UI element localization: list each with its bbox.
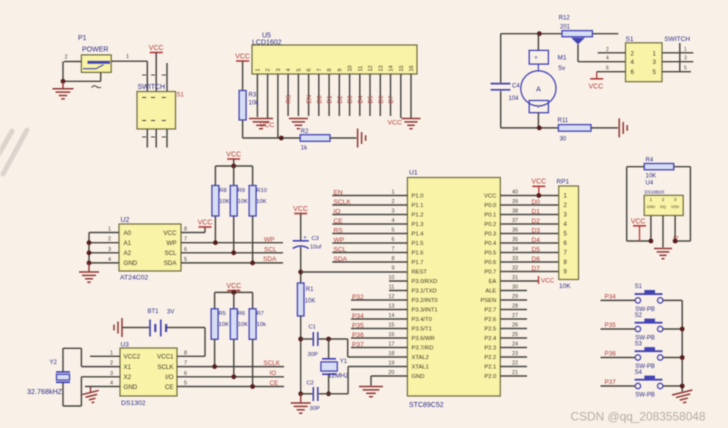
- svg-text:P1.5: P1.5: [412, 241, 424, 247]
- svg-text:D4: D4: [357, 95, 364, 103]
- svg-text:VCC: VCC: [531, 179, 546, 186]
- svg-text:P3.0/RXD: P3.0/RXD: [412, 279, 438, 285]
- svg-text:13: 13: [388, 304, 394, 310]
- wire U1 pin26 stub: [500, 323, 527, 329]
- net D0-D7 lcd pins7-14: [316, 95, 395, 103]
- ground U2: [88, 263, 90, 272]
- power VCC top-left: [149, 45, 164, 53]
- svg-text:D4: D4: [532, 237, 541, 244]
- junction button S3: [680, 355, 685, 360]
- svg-text:STC89C52: STC89C52: [409, 402, 444, 409]
- svg-text:P2.3: P2.3: [484, 346, 496, 352]
- svg-text:10K: 10K: [559, 283, 571, 290]
- wire U1 pin33 net D6: [500, 256, 558, 262]
- svg-text:5: 5: [653, 69, 657, 76]
- svg-text:GND: GND: [412, 374, 425, 380]
- svg-text:P1.7: P1.7: [412, 260, 424, 266]
- wire U1 pin8 net SDA: [332, 256, 407, 262]
- wire U1 pin22 stub: [500, 361, 527, 367]
- svg-text:RP1: RP1: [557, 179, 570, 186]
- svg-text:GND: GND: [124, 260, 138, 267]
- svg-text:8: 8: [184, 227, 187, 233]
- svg-text:3: 3: [276, 68, 282, 71]
- svg-text:D6: D6: [532, 256, 541, 263]
- svg-text:D0: D0: [316, 95, 323, 103]
- wire U3 pin4 GND: [85, 381, 120, 393]
- junction VCC-RP1: [536, 193, 541, 198]
- wire R4 left loop: [627, 167, 645, 241]
- wire crystal top: [328, 339, 330, 358]
- svg-text:12: 12: [368, 65, 374, 71]
- svg-text:VCC: VCC: [163, 230, 177, 237]
- svg-text:D3: D3: [347, 95, 354, 103]
- net VCC on EA: [539, 276, 555, 285]
- wire U1 pin17: [351, 342, 407, 348]
- wire U4 bottom left: [627, 240, 651, 242]
- power VCC pin40: [531, 179, 546, 196]
- ground reset rail: [291, 403, 311, 413]
- svg-text:14: 14: [389, 65, 395, 71]
- svg-text:P0.7: P0.7: [484, 270, 496, 276]
- svg-text:U2: U2: [121, 217, 130, 224]
- wire buttons common vertical: [681, 300, 683, 391]
- svg-text:P36: P36: [605, 351, 617, 358]
- svg-text:P1.0: P1.0: [412, 194, 424, 200]
- svg-text:38: 38: [512, 209, 518, 215]
- junction button S2: [680, 327, 685, 332]
- svg-text:RS: RS: [334, 227, 344, 234]
- wire U1 pin37 net D2: [500, 218, 558, 224]
- wire R8 top: [214, 166, 216, 186]
- wire U1 pin24 stub: [500, 342, 527, 348]
- wire U1 pin1 net EN: [332, 190, 407, 196]
- svg-text:WP: WP: [334, 237, 345, 244]
- wire P1 bottom return: [63, 72, 101, 81]
- wire U1 pin3 net IO: [332, 209, 407, 215]
- svg-text:4: 4: [606, 56, 609, 62]
- svg-text:10: 10: [388, 275, 394, 281]
- capacitor C2 30P: [307, 381, 320, 413]
- svg-text:P3.5/T1: P3.5/T1: [412, 327, 432, 333]
- svg-text:P3.3/INT1: P3.3/INT1: [412, 308, 438, 314]
- wire C1 right to XTAL2: [319, 339, 408, 357]
- resistor R5 10K: [211, 309, 229, 340]
- svg-text:SCLK: SCLK: [334, 199, 352, 206]
- wire R6 top: [233, 292, 235, 308]
- wire gnd to battery: [122, 327, 149, 329]
- wire arrow to S1 pin4: [578, 45, 626, 62]
- svg-text:I/O: I/O: [165, 374, 173, 381]
- svg-text:40: 40: [512, 190, 518, 196]
- junction crystal top: [326, 337, 331, 342]
- svg-text:10K: 10K: [256, 199, 266, 205]
- svg-text:R7: R7: [257, 311, 264, 317]
- power VCC U2 pin8: [198, 219, 213, 227]
- svg-text:X1: X1: [124, 364, 132, 371]
- svg-text:D5: D5: [368, 95, 375, 103]
- resistor R3 10k: [239, 91, 259, 121]
- connector P1 POWER: [78, 35, 111, 88]
- wire U1 pin16: [351, 332, 407, 338]
- wire U1 pin32 net D7: [500, 266, 558, 272]
- svg-text:P1.4: P1.4: [412, 232, 425, 238]
- junction lcd pin3 node: [279, 136, 284, 141]
- svg-text:VCC: VCC: [226, 151, 241, 158]
- ic U4 DS18B20: [644, 190, 683, 216]
- junction R8-WP: [213, 240, 218, 245]
- resistor R2 1k: [300, 129, 330, 152]
- svg-text:VCC: VCC: [541, 278, 555, 285]
- wire S1 right vertical: [679, 43, 681, 72]
- wire R5 to SCLK: [214, 339, 216, 366]
- power VCC pullups top: [226, 151, 241, 159]
- svg-text:6: 6: [391, 237, 394, 243]
- wire U1 pin31 EA: [500, 275, 538, 281]
- wire U4 bottom right: [675, 240, 690, 242]
- svg-text:SWITCH: SWITCH: [664, 36, 690, 43]
- svg-text:R3: R3: [249, 93, 257, 99]
- svg-text:7: 7: [391, 247, 394, 253]
- svg-text:U1: U1: [409, 170, 418, 177]
- wire net SCL: [181, 247, 283, 253]
- wire U1 pin15: [351, 323, 407, 329]
- svg-text:3V: 3V: [167, 310, 174, 316]
- svg-text:18: 18: [388, 351, 394, 357]
- wire P36 to S3: [601, 357, 636, 359]
- svg-text:P1.2: P1.2: [412, 213, 424, 219]
- wire U1 pin20 GND: [371, 370, 407, 385]
- wire U2 left bus: [89, 227, 119, 263]
- svg-text:32.768kHZ: 32.768kHZ: [27, 387, 63, 396]
- svg-text:104: 104: [509, 96, 520, 102]
- svg-text:1: 1: [108, 227, 111, 233]
- wire U2 pin8 VCC: [181, 227, 205, 233]
- svg-text:P2.4: P2.4: [484, 336, 497, 342]
- wire U1 pin40 VCC to RP1: [500, 190, 558, 196]
- switch S1 SWITCH (left): [137, 84, 185, 129]
- wire U1 pin28 stub: [500, 304, 527, 310]
- mcu U1 STC89C52: [407, 170, 500, 410]
- svg-text:C4: C4: [512, 84, 520, 90]
- svg-text:P3.4/T0: P3.4/T0: [412, 317, 432, 323]
- svg-text:24: 24: [512, 342, 518, 348]
- wire U1 pin7 net SCL: [332, 247, 407, 253]
- svg-text:XTAL1: XTAL1: [412, 365, 429, 371]
- svg-text:P37: P37: [352, 341, 364, 348]
- svg-text:21: 21: [512, 370, 518, 376]
- wire R7 top: [252, 292, 254, 308]
- svg-text:SCLK: SCLK: [264, 360, 281, 367]
- svg-text:30P: 30P: [308, 352, 318, 358]
- resistor R4 10K: [644, 158, 674, 187]
- capacitor C1 30P: [308, 325, 318, 359]
- svg-text:SDA: SDA: [263, 256, 277, 263]
- wire U1 pin36 net D3: [500, 228, 558, 234]
- svg-text:GND: GND: [124, 384, 138, 391]
- svg-text:23: 23: [512, 351, 518, 357]
- svg-text:P3.7/RD: P3.7/RD: [412, 346, 434, 352]
- svg-text:10: 10: [348, 65, 354, 71]
- ic U2 AT24C02: [119, 217, 181, 282]
- svg-text:P37: P37: [605, 379, 617, 386]
- svg-text:36: 36: [512, 228, 518, 234]
- svg-text:R1: R1: [306, 287, 314, 293]
- svg-text:2: 2: [606, 47, 609, 53]
- wire R9 to SCL: [233, 216, 235, 253]
- wire U1 pin25 stub: [500, 332, 527, 338]
- svg-text:17: 17: [388, 342, 394, 348]
- svg-text:6: 6: [606, 66, 609, 72]
- wire U1 pin11 stub: [389, 285, 408, 291]
- svg-text:4: 4: [391, 218, 394, 224]
- wire U1 pin14: [351, 313, 407, 319]
- svg-text:10uf: 10uf: [310, 245, 322, 251]
- svg-text:S1: S1: [626, 36, 634, 43]
- svg-text:CE: CE: [334, 218, 344, 225]
- wire motor top rail: [501, 33, 562, 35]
- wire R5 top: [214, 292, 216, 308]
- junction R10-SDA: [250, 261, 255, 266]
- svg-text:VCC: VCC: [388, 120, 402, 127]
- svg-text:35: 35: [512, 237, 518, 243]
- svg-text:VCC: VCC: [198, 219, 213, 226]
- svg-text:D7: D7: [532, 265, 541, 272]
- svg-text:P0.2: P0.2: [484, 222, 496, 228]
- svg-text:D3: D3: [532, 227, 541, 234]
- svg-text:30: 30: [560, 137, 567, 143]
- wire U1 pin39 net D0: [500, 199, 558, 205]
- wire net SDA: [181, 257, 283, 263]
- wire gnd rail bottom: [300, 394, 302, 403]
- svg-text:U5: U5: [262, 33, 271, 40]
- junction R5-R7 rail: [231, 290, 236, 295]
- svg-text:10K: 10K: [238, 199, 248, 205]
- svg-text:A2: A2: [124, 250, 132, 257]
- wire R6 to IO: [233, 339, 235, 377]
- crystal Y1 12MHZ: [321, 359, 349, 380]
- svg-text:VCC1: VCC1: [157, 354, 174, 361]
- wire S1 pin2: [598, 47, 626, 53]
- svg-text:SDA: SDA: [334, 256, 348, 263]
- wire R3 bottom: [242, 120, 244, 138]
- junction R9-SCL: [231, 250, 236, 255]
- svg-text:12MHZ: 12MHZ: [328, 373, 349, 380]
- wire R9 top: [233, 166, 235, 186]
- wire R3 top: [242, 61, 244, 91]
- svg-text:D5: D5: [532, 246, 541, 253]
- svg-text:5: 5: [296, 68, 302, 71]
- wire switch pins bottom: [147, 129, 167, 148]
- svg-text:XTAL2: XTAL2: [412, 355, 429, 361]
- svg-text:9: 9: [337, 68, 343, 71]
- svg-text:SCL: SCL: [334, 246, 347, 253]
- lcd pin wires: [257, 74, 411, 138]
- svg-text:1: 1: [126, 54, 129, 60]
- wire R4 right loop: [674, 167, 691, 241]
- svg-text:WP: WP: [264, 237, 274, 244]
- wire net IO: [177, 371, 284, 377]
- svg-text:P0.4: P0.4: [484, 241, 497, 247]
- capacitor C3 10uf: [293, 236, 322, 251]
- svg-text:4: 4: [108, 257, 111, 263]
- svg-text:10k: 10k: [257, 322, 266, 328]
- svg-text:P3.1/TXD: P3.1/TXD: [412, 289, 437, 295]
- wire U1 pin21 stub: [500, 370, 527, 376]
- svg-text:BT1: BT1: [148, 309, 160, 315]
- svg-text:R5: R5: [219, 311, 226, 317]
- wire crystal bottom: [328, 375, 330, 394]
- svg-text:2: 2: [65, 55, 68, 61]
- svg-text:26: 26: [512, 323, 518, 329]
- power VCC R5-R7: [226, 283, 241, 291]
- svg-text:R9: R9: [238, 188, 245, 194]
- junction pullup rail: [231, 164, 236, 169]
- wire net CE: [177, 381, 284, 387]
- wire U4 pin1: [650, 216, 652, 242]
- svg-text:P1.6: P1.6: [412, 251, 424, 257]
- svg-text:20: 20: [388, 370, 394, 376]
- svg-text:SDA: SDA: [164, 260, 178, 267]
- svg-text:15: 15: [399, 65, 405, 71]
- svg-text:3: 3: [110, 371, 113, 377]
- wire U1 pin23 stub: [500, 351, 527, 357]
- svg-text:P2.0: P2.0: [484, 374, 496, 380]
- svg-text:VCC: VCC: [589, 84, 604, 91]
- svg-text:2: 2: [110, 361, 113, 367]
- pushbutton S4 SW-PB: [635, 370, 663, 399]
- wire S1 pin5: [662, 66, 691, 72]
- svg-text:33: 33: [512, 256, 518, 262]
- junction R5-SCLK: [212, 364, 217, 369]
- svg-text:P0.1: P0.1: [484, 213, 496, 219]
- svg-text:SW-PB: SW-PB: [635, 393, 655, 399]
- svg-text:D6: D6: [378, 95, 385, 103]
- svg-text:10K: 10K: [305, 299, 316, 305]
- svg-text:10K: 10K: [238, 322, 248, 328]
- svg-text:R12: R12: [559, 16, 571, 22]
- wire contrast rail: [243, 137, 301, 139]
- wire U1 pin38 net D1: [500, 209, 558, 215]
- battery BT1 3V: [148, 309, 175, 337]
- svg-text:S3: S3: [635, 341, 643, 347]
- svg-text:22: 22: [512, 361, 518, 367]
- lcd U5 LCD1602: [252, 33, 417, 75]
- svg-text:EN: EN: [306, 95, 313, 104]
- svg-text:4: 4: [286, 68, 292, 71]
- ground left of BT1: [114, 318, 122, 337]
- svg-text:5: 5: [184, 257, 187, 263]
- ground lcd pin5: [289, 119, 308, 129]
- resistor R1 10K: [297, 283, 315, 316]
- wire U1 pin35 net D4: [500, 237, 558, 243]
- svg-text:S1: S1: [177, 93, 185, 99]
- svg-text:D1: D1: [327, 95, 334, 103]
- svg-text:P1.3: P1.3: [412, 222, 424, 228]
- pushbutton S2 SW-PB: [635, 313, 663, 342]
- power VCC reset: [293, 206, 308, 214]
- power VCC S1 (inverted): [589, 72, 604, 91]
- svg-text:30: 30: [512, 285, 518, 291]
- svg-text:DQ: DQ: [660, 204, 666, 209]
- wire U1 pin4 net CE: [332, 218, 407, 224]
- wire C3 to REST node: [300, 247, 302, 283]
- wire R2 to ground: [330, 137, 356, 139]
- svg-text:VCC: VCC: [235, 53, 250, 60]
- svg-text:1: 1: [684, 47, 687, 53]
- svg-text:39: 39: [512, 199, 518, 205]
- decor: [0, 130, 27, 174]
- svg-text:CE: CE: [165, 384, 174, 391]
- svg-text:10K: 10K: [646, 174, 657, 180]
- wire U1 pin12: [351, 294, 407, 300]
- svg-text:+: +: [303, 236, 307, 242]
- resistor R9 10K: [230, 186, 248, 217]
- svg-text:16: 16: [388, 332, 394, 338]
- svg-text:C2: C2: [307, 381, 314, 387]
- svg-text:7: 7: [317, 68, 323, 71]
- svg-text:25: 25: [512, 332, 518, 338]
- pushbutton S3 SW-PB: [635, 341, 663, 370]
- junction REST: [298, 270, 303, 275]
- svg-text:P3.6/WR: P3.6/WR: [412, 336, 435, 342]
- svg-text:R11: R11: [558, 118, 569, 124]
- svg-text:27: 27: [512, 313, 518, 319]
- wire P1 pin1 to switch: [111, 54, 147, 61]
- wire S4 to common: [663, 385, 682, 387]
- svg-text:1k: 1k: [301, 146, 308, 152]
- svg-text:P34: P34: [352, 313, 364, 320]
- wire R12 right: [592, 33, 618, 35]
- wire U1 pin2 net SCLK: [332, 199, 407, 205]
- svg-text:VCC: VCC: [226, 283, 241, 290]
- svg-text:VDD: VDD: [671, 204, 679, 209]
- ground buttons: [672, 390, 695, 405]
- svg-text:DS1302: DS1302: [121, 400, 146, 407]
- svg-text:P3.2/INT0: P3.2/INT0: [412, 298, 438, 304]
- svg-text:P2.6: P2.6: [484, 317, 496, 323]
- svg-text:R10: R10: [256, 188, 267, 194]
- pin numbers switch left: [142, 75, 166, 137]
- wire motor left rail: [500, 34, 502, 128]
- svg-text:3: 3: [684, 56, 687, 62]
- resistor R11 30: [558, 118, 592, 143]
- lcd pin numbers: [255, 65, 415, 71]
- pushbutton S1 SW-PB: [635, 284, 663, 313]
- ground lcd pin1: [249, 119, 273, 129]
- wire U1 pin13: [351, 304, 407, 310]
- ground U3 pin4: [82, 390, 101, 404]
- svg-text:16: 16: [409, 65, 415, 71]
- junction R6-IO: [231, 374, 236, 379]
- svg-text:6: 6: [184, 371, 187, 377]
- svg-text:IO: IO: [270, 370, 277, 377]
- svg-text:31: 31: [512, 275, 518, 281]
- wire U4 pin3: [674, 216, 676, 242]
- svg-text:13: 13: [378, 65, 384, 71]
- svg-text:SCL: SCL: [264, 247, 277, 254]
- svg-text:P0.5: P0.5: [484, 251, 496, 257]
- svg-text:5: 5: [184, 381, 187, 387]
- svg-text:8: 8: [391, 256, 394, 262]
- svg-text:1: 1: [653, 50, 657, 57]
- wire P34 to S1: [601, 299, 636, 301]
- svg-text:2: 2: [631, 50, 635, 57]
- wire R10 to SDA: [252, 216, 254, 263]
- ground right of R2: [358, 129, 366, 148]
- wire U3 pin2 X1: [63, 348, 120, 371]
- wire R1 to gnd rail: [300, 316, 302, 394]
- wire S2 to common: [663, 328, 682, 330]
